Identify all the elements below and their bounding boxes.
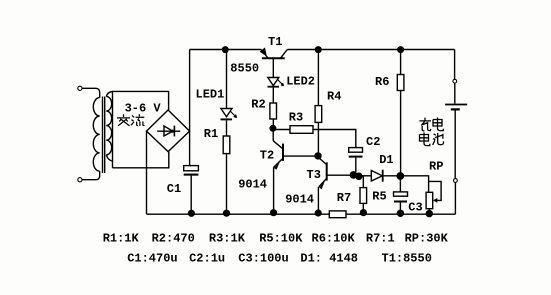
transformer B primary terminal top: [78, 86, 82, 90]
svg-text:D1: 4148: D1: 4148: [300, 252, 358, 266]
wire C1 to ground rail: [190, 176, 192, 214]
wire T3 emitter to ground rail: [317, 187, 319, 213]
svg-text:R5:10K: R5:10K: [259, 231, 303, 245]
wire node to D1: [357, 175, 371, 177]
potentiometer RP wiper arrow: [433, 198, 437, 203]
wire top rail corner to battery: [454, 50, 456, 80]
wire R3 to C2: [313, 130, 356, 148]
wire RP to ground rail: [428, 209, 430, 214]
node ground R5: [360, 209, 367, 216]
transistor T2 emitter arrow: [274, 162, 280, 170]
battery GB negative short plate: [451, 108, 460, 110]
resistor R6: [397, 75, 404, 91]
svg-text:3-6 V: 3-6 V: [125, 101, 162, 115]
battery GB top terminal circle: [453, 79, 457, 83]
svg-text:R1:1K: R1:1K: [103, 231, 140, 245]
svg-text:C2:1u: C2:1u: [189, 252, 225, 266]
transistor T1 collector lead: [281, 50, 288, 59]
svg-text:8550: 8550: [230, 61, 259, 75]
node top rail LED1 branch: [222, 46, 229, 53]
wire LED1 branch: [226, 50, 228, 109]
wire bridge left vertex to ground rail: [146, 131, 148, 214]
transistor T3 emitter lead: [319, 178, 327, 187]
label 充电 hand-drawn: [419, 118, 443, 131]
potentiometer RP body: [426, 192, 433, 208]
node D1/R6/RP/C3: [396, 172, 404, 180]
wire R2 to node: [272, 119, 274, 128]
svg-text:C1:470u: C1:470u: [127, 252, 177, 266]
diode D1 cathode bar: [382, 170, 384, 182]
wire bridge bottom AC lead: [113, 152, 169, 168]
wire secondary bottom hook: [106, 155, 112, 161]
svg-text:R1: R1: [204, 127, 218, 141]
wire primary top lead: [82, 88, 100, 97]
wire top rail right segment: [287, 49, 454, 51]
svg-text:RP: RP: [429, 160, 443, 174]
wire R4 to node: [317, 122, 319, 155]
bridge diode triangle: [164, 126, 173, 136]
node ground RP: [426, 210, 433, 217]
svg-text:D1: D1: [379, 153, 393, 167]
wire battery bottom lead: [454, 111, 456, 179]
svg-text:R6:10K: R6:10K: [312, 231, 356, 245]
node ground R1: [223, 210, 230, 217]
svg-text:9014: 9014: [285, 193, 314, 207]
LED1 arrow: [230, 111, 236, 118]
svg-text:LED1: LED1: [196, 88, 225, 102]
bridge rectifier diamond: [147, 110, 190, 152]
node top rail R6 branch: [397, 46, 404, 53]
resistor R3: [290, 126, 313, 134]
battery GB positive long plate: [445, 104, 467, 106]
wire R5 to ground rail: [362, 203, 364, 213]
wire primary bottom lead: [82, 171, 100, 180]
node R2/R3/T2 collector: [269, 125, 276, 132]
label 交流 hand-drawn: [117, 114, 144, 126]
wire battery top lead: [454, 83, 456, 103]
svg-text:R7:1: R7:1: [366, 231, 395, 245]
transformer B primary terminal bottom: [78, 178, 82, 182]
capacitor C2 bottom plate: [349, 156, 363, 158]
svg-text:T1:8550: T1:8550: [382, 252, 432, 266]
svg-text:R3: R3: [289, 111, 303, 125]
wire R4 branch: [317, 50, 319, 106]
wire secondary loop box: [113, 91, 169, 167]
label 电池 hand-drawn: [420, 133, 444, 146]
potentiometer RP wiper loop: [429, 181, 442, 200]
diode D1 triangle: [371, 171, 382, 182]
LED2 triangle: [268, 78, 279, 86]
wire R6 to node: [400, 91, 402, 176]
transistor T3 base lead: [327, 174, 351, 176]
wire R5 branch: [362, 176, 364, 187]
wire C2 to node: [355, 158, 357, 176]
transistor T1 base bar: [262, 57, 285, 59]
svg-text:R6: R6: [375, 75, 389, 89]
bridge diode line: [157, 130, 180, 132]
transistor T2 collector lead: [273, 141, 283, 149]
svg-text:LED2: LED2: [286, 75, 315, 89]
wire node to RP: [404, 176, 429, 193]
transistor T3 emitter arrow: [319, 181, 325, 189]
svg-text:T1: T1: [268, 35, 282, 49]
capacitor C1 top plate: [184, 166, 199, 171]
LED2 arrow: [278, 80, 284, 86]
wire T2 collector vertical: [272, 128, 274, 141]
svg-text:T2: T2: [260, 148, 274, 162]
resistor R7: [329, 211, 346, 218]
node ground C1: [188, 210, 195, 217]
wire top rail left segment: [190, 49, 262, 51]
node top rail R4 branch: [315, 46, 322, 53]
svg-text:R2: R2: [251, 98, 265, 112]
node ground T2 emitter: [270, 209, 277, 216]
capacitor C2 top plate: [349, 148, 363, 153]
transformer B core: [103, 97, 105, 174]
bridge diode junction dot: [171, 130, 174, 133]
wire bridge right vertex up to top rail: [189, 50, 191, 132]
svg-text:RP:30K: RP:30K: [405, 231, 449, 245]
wire D1 to node: [384, 175, 401, 177]
wire LED2 to R2: [272, 88, 274, 103]
svg-text:R7: R7: [337, 191, 351, 205]
transistor T2 base bar: [282, 144, 284, 161]
wire R1 to ground rail: [226, 154, 228, 214]
transistor T1 emitter lead: [261, 50, 268, 59]
transistor T2 base lead: [283, 155, 318, 157]
capacitor C1 bottom plate: [184, 174, 199, 176]
resistor R5: [360, 188, 367, 204]
transistor T1 emitter arrow: [260, 47, 267, 56]
svg-text:C3: C3: [408, 201, 422, 215]
transistor T3 base bar: [326, 162, 328, 180]
svg-text:C2: C2: [366, 135, 380, 149]
node T3 base / C2 / D1 / R5 blob: [350, 171, 358, 179]
wire T2 emitter to ground rail: [273, 167, 275, 213]
resistor R4: [315, 106, 322, 123]
wire node to R3: [273, 129, 290, 131]
svg-text:9014: 9014: [238, 178, 267, 192]
svg-text:R4: R4: [327, 89, 341, 103]
node ground C3: [397, 210, 404, 217]
svg-text:C3:100u: C3:100u: [238, 252, 288, 266]
wire LED1 to R1: [226, 120, 228, 136]
svg-text:R2:470: R2:470: [152, 231, 195, 245]
wire C3 to ground rail: [399, 203, 401, 214]
wire ground rail right of R7: [346, 213, 455, 215]
battery GB bottom terminal circle: [454, 179, 458, 183]
resistor R1: [223, 136, 230, 154]
LED1 triangle: [221, 109, 232, 117]
svg-text:C1: C1: [167, 182, 181, 196]
wire node to C3: [399, 176, 401, 192]
transformer B primary winding: [93, 98, 99, 172]
node ground T3 emitter: [315, 209, 322, 216]
wire T1 base to LED2: [272, 58, 274, 77]
wire ground rail left of R7: [147, 213, 330, 215]
transistor T3 collector lead: [318, 157, 327, 165]
transformer B secondary winding: [106, 96, 111, 154]
resistor R2: [270, 103, 277, 119]
wire C1 branch top: [189, 131, 192, 166]
capacitor C3 bottom plate: [394, 201, 407, 203]
LED2 cathode bar: [268, 86, 280, 88]
node R4/T2 base/T3 collector: [314, 152, 321, 159]
capacitor C3 top plate: [394, 192, 408, 196]
wire secondary top hook: [106, 92, 112, 97]
wire R6 branch top: [400, 50, 402, 75]
svg-text:R5: R5: [372, 190, 386, 204]
svg-text:R3:1K: R3:1K: [209, 231, 246, 245]
bridge diode cathode bar: [173, 126, 175, 137]
LED1 cathode bar: [221, 118, 233, 120]
transistor T2 emitter lead: [274, 158, 283, 167]
svg-text:T3: T3: [307, 168, 321, 182]
wire battery to ground rail: [454, 183, 456, 215]
